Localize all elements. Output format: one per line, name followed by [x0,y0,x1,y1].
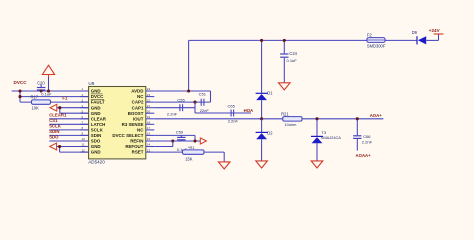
wire CAP2 row [154,101,210,103]
wire +24V top rail [189,39,367,41]
svg-text:SMAJ24CA: SMAJ24CA [321,135,342,140]
junction T3 [315,117,318,120]
junction dots left [18,89,50,98]
svg-text:15K: 15K [185,156,193,161]
svg-text:SCLK: SCLK [91,128,104,133]
svg-text:CLEAR: CLEAR [91,116,107,121]
junctions REFIN [171,139,174,142]
wire vertical CAP2 to HOA row [194,102,196,113]
svg-text:22nF: 22nF [200,108,210,113]
TVS T3 [311,119,341,161]
svg-text:2.2nF: 2.2nF [167,111,178,116]
svg-text:10K: 10K [32,106,40,111]
pin numbers right [147,87,151,152]
junction CAP2 [193,101,196,104]
svg-text:17: 17 [147,126,151,130]
wire CLEAR pin6 [49,118,88,120]
junction [58,145,61,148]
pin stubs left pins 1-12 [80,91,88,152]
svg-text:CLEAR1: CLEAR1 [49,113,67,118]
svg-text:D2: D2 [267,130,273,135]
wire REFIN row [154,140,200,142]
capacitor C51 [201,99,204,106]
capacitor C66 [353,119,361,151]
svg-text:13: 13 [147,148,151,152]
wire vertical to pin12 [59,147,61,153]
svg-text:24: 24 [147,87,151,91]
ground below T3 [311,161,323,168]
svg-text:0.1uF: 0.1uF [41,92,52,97]
ground below D2 [256,161,268,168]
svg-text:22: 22 [147,98,151,102]
svg-text:REFOUT: REFOUT [125,144,143,149]
svg-text:SDO: SDO [49,135,59,140]
svg-text:R21: R21 [281,112,289,117]
fuse F2 [367,33,386,49]
wire fuse to diode [385,39,417,41]
svg-text:18: 18 [147,121,151,125]
svg-text:C55: C55 [177,97,185,102]
wire AVDD row [154,90,210,92]
svg-text:AVDD: AVDD [131,89,143,94]
overline DVCC pin [91,93,103,95]
op-amp U9 body (AD5420 IC) [89,87,146,159]
svg-text:2.2nF: 2.2nF [228,119,239,124]
svg-text:C65: C65 [228,103,236,108]
svg-text:SDIN: SDIN [91,133,102,138]
svg-text:SDIN: SDIN [49,129,59,134]
svg-text:15: 15 [147,137,151,141]
wire AVDD to rail [188,40,190,91]
wire FAULT row pin3 [20,101,89,103]
wire vertical REFOUT to REFIN [172,141,174,147]
power DVCC arrow symbol [48,78,50,92]
svg-text:CAP1: CAP1 [132,105,144,110]
wire pin5 [60,112,89,114]
wire DVCC row to pin1 [12,90,89,92]
junction IOUT D1 D2 [260,117,263,120]
wire SDO pin10 [49,140,88,142]
wire SDIN pin9 [49,134,88,136]
resistor R17 [31,95,51,111]
svg-text:GND: GND [91,105,101,110]
svg-text:23: 23 [147,93,151,97]
capacitor C24 [280,40,288,82]
diode D1 [256,91,274,100]
svg-text:DVCC SELECT: DVCC SELECT [112,133,143,138]
svg-text:NC: NC [137,94,144,99]
wire pin12 [60,151,89,153]
svg-text:20: 20 [147,109,151,113]
svg-text:2.2nF: 2.2nF [362,140,373,145]
svg-text:GND: GND [91,150,101,155]
svg-text:SDO: SDO [91,139,101,144]
svg-text:NC: NC [137,128,144,133]
ground below C24 [279,83,291,90]
svg-text:D1: D1 [267,91,273,96]
junction rail D1 [260,39,263,42]
wire D1 to IOUT row [261,100,263,119]
resistor R21 [281,112,302,128]
svg-text:0.1uF: 0.1uF [287,58,298,63]
capacitor C65 [231,110,234,117]
pin numbers left [82,87,86,152]
pin names right [112,89,144,155]
svg-text:14: 14 [147,143,151,147]
wire DVCC SELECT row [154,134,195,136]
diode D9 [412,30,427,45]
wire rail down to D1 [261,40,263,93]
svg-text:C51: C51 [199,91,207,96]
svg-text:SCLK: SCLK [49,124,62,129]
ground arrow (left, pins 11-12) [50,143,57,150]
junction [187,89,190,92]
junction C66 [356,117,359,120]
svg-text:AD5420: AD5420 [88,159,105,164]
svg-text:F2: F2 [367,33,373,38]
svg-text:DVCC: DVCC [14,80,28,85]
wire vertical to pin5 [59,108,61,114]
wire HOA row [195,112,251,114]
ground arrow (left, pins 4-5) [50,104,57,111]
svg-text:10ohm: 10ohm [285,122,297,127]
svg-text:GND: GND [91,111,101,116]
svg-text:+24V: +24V [429,28,441,33]
svg-text:BOOST: BOOST [128,111,144,116]
svg-text:C20: C20 [37,80,45,85]
wire IOUT row long [154,118,383,120]
svg-text:U9: U9 [88,81,94,86]
svg-text:19: 19 [147,115,151,119]
svg-text:AOA+: AOA+ [370,113,383,118]
wire RSET down to ground [223,152,225,162]
wire vertical DVCC branch [19,91,21,102]
wire diode to +24V port [426,39,438,41]
svg-text:C59: C59 [176,129,184,134]
svg-text:HOA: HOA [244,108,254,113]
wire pin11 [57,146,89,148]
wire REFOUT row [154,146,173,148]
junction rail C24 [283,39,286,42]
svg-text:DVCC: DVCC [91,94,104,99]
svg-text:REFIN: REFIN [130,139,143,144]
capacitor C20 [37,85,46,91]
capacitor C55 [180,104,183,111]
svg-text:16: 16 [147,132,151,136]
wire to pin2 [20,96,89,98]
svg-text:SMD300F: SMD300F [367,44,386,49]
svg-text:RSET: RSET [132,150,144,155]
svg-text:*R1: *R1 [188,145,195,150]
wire down right of C51 [210,91,212,102]
junction [58,106,61,109]
svg-text:R17: R17 [31,95,39,100]
ground below RSET resistor [218,162,230,169]
svg-text:FAULT: FAULT [91,100,105,105]
svg-text:LATCH: LATCH [91,122,106,127]
svg-text:GND: GND [91,89,101,94]
svg-text:IOUT: IOUT [133,116,144,121]
capacitor C59 [177,135,185,141]
port arrow right (REFIN) [200,138,206,144]
wire RSET row [154,151,224,153]
wire SCLK pin8 [49,129,88,131]
svg-text:D9: D9 [412,30,418,35]
overline FAULT pin [91,99,104,101]
diode D2 [256,119,274,161]
svg-text:CS1: CS1 [49,118,58,123]
pin names left [91,89,107,155]
wire CAP1 row [154,107,195,109]
svg-text:R3 SENSE: R3 SENSE [122,122,144,127]
power +24V port bar [434,33,444,35]
wire LATCH pin7 [49,123,88,125]
svg-text:AOAA+: AOAA+ [356,153,372,158]
svg-text:C24: C24 [289,51,297,56]
svg-text:C66: C66 [363,134,371,139]
svg-text:CAP2: CAP2 [132,100,144,105]
pin stubs right pins 24-13 [146,91,155,152]
svg-text:GND: GND [91,144,101,149]
svg-text:F1: F1 [62,96,68,101]
wire vertical DVCC SELECT to REFIN [194,135,196,141]
wire pin4 [57,107,89,109]
svg-text:21: 21 [147,104,151,108]
resistor R1 15K [183,145,205,161]
